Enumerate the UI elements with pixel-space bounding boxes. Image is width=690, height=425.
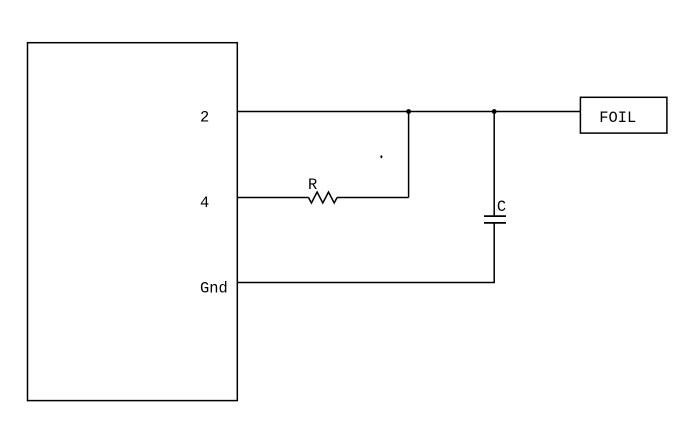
junction node B	[492, 109, 497, 114]
junction node A	[406, 109, 411, 114]
capacitor C top plate	[484, 215, 506, 217]
FOIL box	[580, 97, 667, 133]
stray dot	[380, 155, 382, 158]
wire capacitor to Gnd wire	[493, 223, 495, 283]
svg-text:C: C	[497, 198, 506, 216]
svg-text:FOIL: FOIL	[599, 109, 636, 127]
wire pin4 to resistor	[237, 197, 308, 199]
svg-text:2: 2	[200, 109, 209, 127]
wire node B to capacitor	[493, 112, 495, 217]
wire Gnd	[237, 282, 495, 284]
resistor R	[309, 192, 338, 203]
capacitor C bottom plate	[484, 222, 506, 224]
wire resistor to node A	[337, 197, 409, 199]
wire pin2 to FOIL	[237, 111, 580, 113]
IC box U1	[28, 43, 238, 401]
wire node A vertical	[408, 112, 410, 198]
svg-text:R: R	[308, 176, 317, 194]
svg-text:Gnd: Gnd	[200, 280, 228, 298]
svg-text:4: 4	[200, 194, 209, 212]
